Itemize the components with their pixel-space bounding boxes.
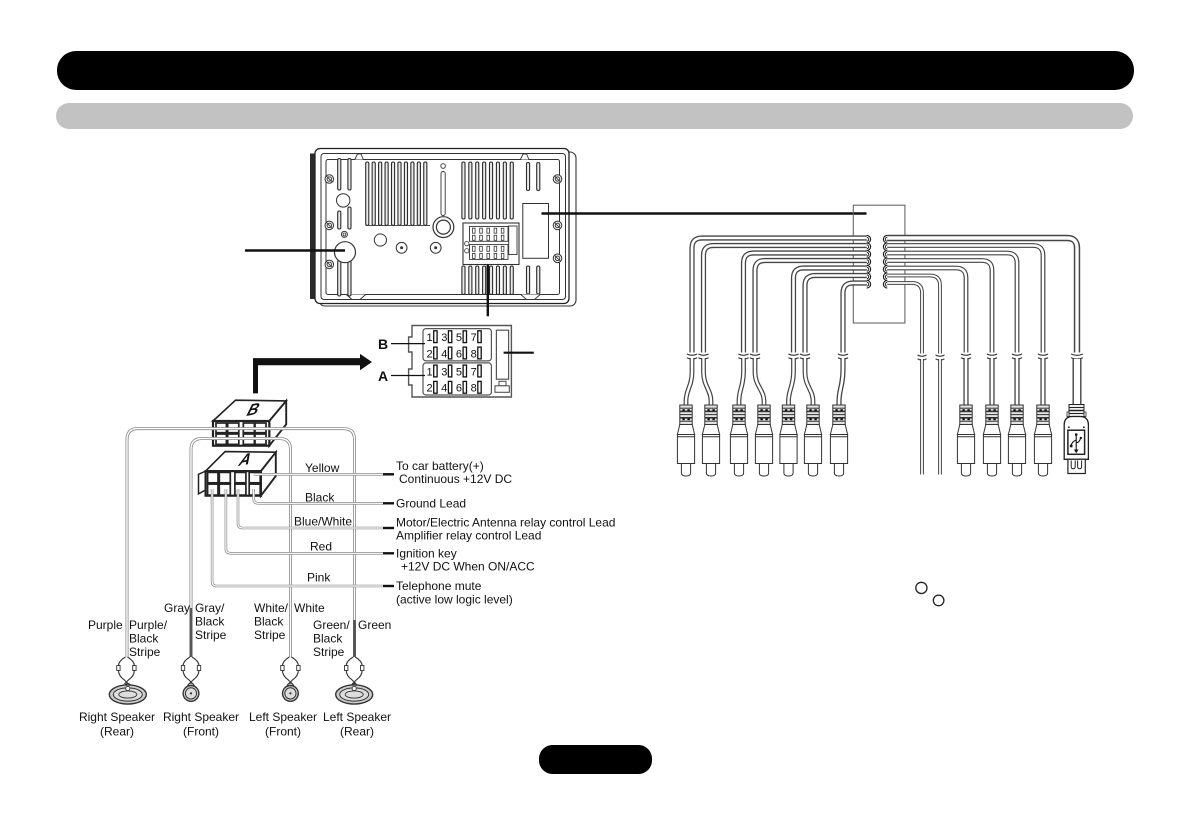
cable collar <box>918 355 927 360</box>
vent slot <box>441 172 445 216</box>
connector block B <box>213 399 286 446</box>
screw left bottom <box>325 260 334 269</box>
callout dash black <box>383 502 394 504</box>
svg-text:Black: Black <box>313 632 343 646</box>
svg-text:2: 2 <box>427 348 433 360</box>
svg-text:4: 4 <box>441 348 447 360</box>
dark stripe segment wire 2 <box>190 608 193 657</box>
Y branch <box>789 358 794 405</box>
pointer line to ISO detail <box>487 265 489 317</box>
RCA plug <box>1008 405 1025 476</box>
heatsink fins below connector <box>462 266 513 295</box>
svg-text:Telephone mute: Telephone mute <box>396 579 482 593</box>
svg-text:5: 5 <box>456 366 462 378</box>
heatsink fins top-right <box>527 163 540 191</box>
heatsink fins above connector <box>462 162 513 219</box>
dark stripe segment wire 4 <box>353 620 356 657</box>
cable to RCA <box>963 358 968 405</box>
svg-text:Amplifier relay control Lead: Amplifier relay control Lead <box>396 529 541 543</box>
cable collar <box>788 354 798 359</box>
svg-text:A: A <box>378 368 388 384</box>
svg-text:(Rear): (Rear) <box>100 725 134 739</box>
svg-text:Pink: Pink <box>307 571 331 585</box>
svg-text:3: 3 <box>441 366 447 378</box>
heatsink base line <box>366 224 430 226</box>
bare wire 1 <box>920 359 924 475</box>
harness cable R3 <box>887 253 1017 353</box>
svg-text:White/: White/ <box>254 601 289 615</box>
harness cable R4 <box>887 261 992 353</box>
left rear speaker pigtail <box>345 657 364 684</box>
RCA plug <box>804 405 821 476</box>
blank module right <box>523 204 549 259</box>
svg-text:6: 6 <box>456 383 462 395</box>
svg-text:8: 8 <box>471 348 477 360</box>
cable collar <box>750 354 760 359</box>
speaker wire loop outer (purple / green) <box>127 429 355 657</box>
cable collar <box>936 355 945 360</box>
pointer line to harness <box>542 212 867 214</box>
cable collar <box>987 354 997 359</box>
heatsink fins middle cluster <box>366 162 427 225</box>
title bar (black) <box>57 51 1134 90</box>
cable to RCA <box>989 358 994 405</box>
svg-text:Purple: Purple <box>88 618 123 632</box>
harness cable L2 <box>704 246 867 353</box>
svg-text:Right Speaker: Right Speaker <box>79 710 155 724</box>
head unit rear panel <box>310 149 576 307</box>
harness cable L7 <box>843 283 867 353</box>
cable collar <box>1038 354 1048 359</box>
svg-text:(Rear): (Rear) <box>340 725 374 739</box>
svg-text:Continuous +12V DC: Continuous +12V DC <box>399 472 512 486</box>
cable collar <box>961 354 971 359</box>
pointer line antenna <box>245 249 345 251</box>
bare wire 2 <box>938 359 942 475</box>
svg-text:Black: Black <box>195 615 225 629</box>
Y branch <box>805 358 813 405</box>
single branch <box>839 358 843 405</box>
USB connector <box>1064 405 1088 474</box>
harness cable L6 <box>805 276 867 353</box>
svg-text:Stripe: Stripe <box>254 628 286 642</box>
RCA plug <box>983 405 1000 476</box>
knob / spindle <box>433 217 454 238</box>
svg-text:Left Speaker: Left Speaker <box>323 710 391 724</box>
Y branch <box>704 358 712 405</box>
svg-text:Blue/White: Blue/White <box>294 515 352 529</box>
svg-text:1: 1 <box>427 332 433 344</box>
callout dash red <box>383 552 394 554</box>
RCA plug <box>702 405 719 476</box>
svg-text:Yellow: Yellow <box>305 461 340 475</box>
screw left top <box>325 175 334 184</box>
svg-text:Ignition key: Ignition key <box>396 547 457 561</box>
svg-text:Right Speaker: Right Speaker <box>163 710 239 724</box>
screw left mid <box>325 221 334 230</box>
svg-text:3: 3 <box>441 332 447 344</box>
svg-text:Gray: Gray <box>164 601 190 615</box>
ISO connector detail <box>378 326 534 398</box>
right front speaker pigtail <box>181 657 200 684</box>
mounting tab bottom-right <box>521 295 540 300</box>
svg-text:7: 7 <box>471 366 477 378</box>
svg-text:4: 4 <box>441 383 447 395</box>
svg-text:+12V DC When ON/ACC: +12V DC When ON/ACC <box>401 560 535 574</box>
left speaker rear (oval) <box>336 684 373 705</box>
svg-text:(Front): (Front) <box>265 725 301 739</box>
wire blue/white lead <box>238 489 383 528</box>
pointer line ISO right <box>504 352 534 354</box>
harness cable L1 <box>692 238 867 353</box>
RCA plug <box>780 405 797 476</box>
harness left post hooks <box>867 235 871 243</box>
Y branch <box>755 358 764 405</box>
svg-text:2: 2 <box>427 383 433 395</box>
heatsink fins bottom-right <box>527 266 540 294</box>
harness cable L5 <box>794 268 867 353</box>
svg-text:B: B <box>378 336 388 352</box>
USB cable <box>1073 359 1082 405</box>
mounting tab bottom-left <box>346 295 365 300</box>
heatsink fins bottom-left <box>338 261 351 297</box>
mounting tab top-right <box>520 154 529 160</box>
RCA plug <box>677 405 694 476</box>
right speaker rear (oval) <box>109 684 146 705</box>
svg-text:(active low logic level): (active low logic level) <box>396 593 513 607</box>
right rear speaker pigtail <box>117 657 136 684</box>
RCA plug <box>755 405 772 476</box>
right speaker front (round) <box>183 683 199 701</box>
wire pink lead <box>212 489 383 586</box>
svg-text:White: White <box>294 601 325 615</box>
wire red lead <box>226 489 383 553</box>
svg-text:5: 5 <box>456 332 462 344</box>
heatsink fins top-left <box>338 159 351 191</box>
harness cable R5 <box>887 268 966 353</box>
svg-text:1: 1 <box>427 366 433 378</box>
mounting tab top-left <box>355 154 364 160</box>
screw right mid <box>553 221 562 230</box>
cable collar <box>800 354 810 359</box>
callout dash blue/white <box>383 527 394 529</box>
svg-text:Black: Black <box>305 491 335 505</box>
callout dash pink <box>383 585 394 587</box>
harness cable R2 <box>887 246 1043 353</box>
Y branch <box>686 358 692 405</box>
screw right bottom <box>553 254 562 263</box>
svg-text:Green/: Green/ <box>313 618 350 632</box>
cable collar <box>838 354 848 359</box>
arrow to ISO detail <box>253 354 372 394</box>
grommet 1 <box>396 242 407 253</box>
heatsink fins left small <box>338 207 351 229</box>
svg-text:Stripe: Stripe <box>129 645 161 659</box>
connector block A <box>199 449 276 496</box>
cable collar <box>687 354 697 359</box>
cable collar <box>738 354 748 359</box>
RCA plug <box>957 405 974 476</box>
svg-text:To car battery(+): To car battery(+) <box>396 459 484 473</box>
svg-text:Green: Green <box>358 618 391 632</box>
svg-text:Purple/: Purple/ <box>129 618 168 632</box>
svg-text:8: 8 <box>471 383 477 395</box>
svg-text:Black: Black <box>129 632 159 646</box>
svg-text:Motor/Electric Antenna relay c: Motor/Electric Antenna relay control Lea… <box>396 516 615 530</box>
small circle 2 <box>933 595 944 606</box>
harness cable R6 <box>887 276 940 354</box>
wire yellow lead <box>254 473 383 476</box>
svg-text:Gray/: Gray/ <box>195 601 225 615</box>
RCA plug <box>730 405 747 476</box>
screw right top <box>553 175 562 184</box>
RCA plug <box>830 405 847 476</box>
small circle 1 <box>916 582 927 593</box>
callout dash yellow <box>383 473 394 475</box>
footer pill <box>539 745 652 774</box>
RCA plug <box>1034 405 1051 476</box>
svg-text:Left Speaker: Left Speaker <box>249 710 317 724</box>
svg-text:Red: Red <box>310 540 332 554</box>
left front speaker pigtail <box>281 657 300 684</box>
harness connector outline <box>853 205 905 323</box>
harness cable L4 <box>755 261 867 353</box>
left speaker front (round) <box>283 683 299 701</box>
svg-text:Stripe: Stripe <box>195 628 227 642</box>
svg-text:Stripe: Stripe <box>313 645 345 659</box>
vent hole <box>441 164 446 169</box>
cable collar <box>698 354 708 359</box>
grommet 2 <box>430 242 441 253</box>
cable to RCA <box>1014 358 1019 405</box>
svg-text:Black: Black <box>254 615 284 629</box>
cable collar <box>1071 354 1083 359</box>
svg-text:6: 6 <box>456 348 462 360</box>
hole mid <box>374 234 386 246</box>
speaker wire loop inner (gray / white) <box>191 439 291 658</box>
harness cable L3 <box>744 253 867 353</box>
svg-text:(Front): (Front) <box>183 725 219 739</box>
unit ISO connector block <box>463 223 519 265</box>
hole top-left <box>337 194 350 207</box>
cable to RCA <box>1040 358 1045 405</box>
harness cable R1 <box>887 238 1077 353</box>
svg-text:Ground Lead: Ground Lead <box>396 497 466 511</box>
cable collar <box>1012 354 1022 359</box>
harness cable R7 <box>887 283 922 354</box>
antenna socket <box>335 242 356 263</box>
wire black lead <box>254 489 383 503</box>
small screw left-mid <box>341 231 347 237</box>
Y branch <box>739 358 744 405</box>
svg-text:7: 7 <box>471 332 477 344</box>
harness right post hooks <box>883 235 887 243</box>
subtitle bar (gray) <box>56 103 1133 129</box>
